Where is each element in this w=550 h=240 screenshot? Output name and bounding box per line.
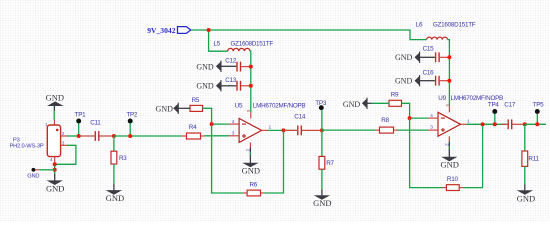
wire L5 to V+ rail [249,51,252,112]
wire 9V drop to L5 [209,30,228,51]
svg-text:TP1: TP1 [75,112,87,119]
ground below P3 [46,174,64,194]
op-amp U9 [428,95,503,146]
svg-text:GND: GND [46,184,64,194]
power port 9V_3042 [147,26,191,35]
svg-text:GND: GND [196,82,214,91]
svg-text:4: 4 [232,119,235,124]
wire GND stub [35,169,40,171]
test point TP4 [488,101,500,124]
svg-text:1: 1 [269,125,272,130]
wire R4 to U5 pin3 [205,135,229,137]
wire R8 to U9 pin3 [398,129,429,131]
svg-text:U5: U5 [235,103,243,110]
wire R9 left [367,102,372,104]
wire C17 to TP5 [525,123,546,125]
capacitor C16 [423,69,450,85]
wire P3 pin3 loop [55,145,76,164]
svg-text:L5: L5 [214,41,221,48]
node GND stub dot [32,168,36,172]
test point TP5 [533,101,545,124]
svg-text:R11: R11 [528,156,539,163]
junction C15 [447,55,451,59]
ground at R5 [156,103,179,114]
svg-text:TP2: TP2 [126,112,138,119]
svg-text:R3: R3 [119,155,127,162]
junction U9 output feedback [481,122,485,126]
svg-text:TP4: TP4 [488,101,500,108]
wire L6 to V+ rail U9 [448,40,450,107]
svg-text:GND: GND [313,198,331,208]
junction TP4 [493,122,497,126]
ground at C16 [395,75,435,86]
op-amp U5 [229,103,306,152]
resistor R7 [319,130,334,189]
wire feedback right U5 [264,130,283,193]
svg-text:C17: C17 [504,101,516,108]
ground at C12 [196,61,236,72]
junction U9 inverting node [408,116,412,120]
svg-text:TP5: TP5 [533,101,545,108]
test point TP3 [315,100,327,130]
svg-text:LMH6702MF/NOPB: LMH6702MF/NOPB [253,103,306,110]
test point TP1 [75,112,87,137]
svg-text:GND: GND [395,53,413,62]
resistor R10 [443,176,464,191]
svg-text:R10: R10 [447,176,459,183]
pin 2 right [61,135,67,137]
svg-text:GZ1608D151TF: GZ1608D151TF [433,21,476,28]
resistor R5 [190,97,203,111]
svg-text:1: 1 [467,119,470,124]
ground at C13 [196,80,236,91]
svg-text:GND: GND [196,62,214,71]
svg-text:GND: GND [343,100,361,109]
svg-text:GND: GND [242,166,260,176]
wire feedback right U9 [463,124,483,187]
capacitor C15 [423,45,450,62]
wire feedback loop U9 [410,118,443,188]
capacitor C11 [82,120,114,141]
capacitor C13 [225,77,251,91]
svg-text:R5: R5 [192,97,200,104]
pin 1 top [53,119,55,125]
svg-text:9V_3042: 9V_3042 [147,26,175,35]
junction R3 node [112,134,116,138]
svg-text:C16: C16 [423,69,435,76]
test point TP2 [126,112,138,137]
svg-text:R6: R6 [250,182,258,189]
ground above P3 [46,92,64,119]
svg-text:R8: R8 [381,117,389,124]
wire R9 to U9 inverting input [402,103,429,118]
svg-text:PH2.0-WS-3P: PH2.0-WS-3P [10,144,44,150]
resistor R6 [243,182,264,196]
pin 4 bottom [54,157,56,162]
inductor L6 [416,21,476,39]
junction P3 pin4 a [53,162,57,166]
junction TP1 [77,134,81,138]
svg-text:GND: GND [156,104,174,113]
ground at R9 [343,98,367,110]
wire P3 pin4 down [54,162,56,174]
svg-text:GND: GND [27,173,39,179]
wire P3 pin2 to main net [67,135,82,137]
svg-text:R7: R7 [326,160,334,167]
wire R5 left [177,107,191,109]
ground at R11 [517,185,535,204]
svg-text:C14: C14 [294,114,306,121]
svg-text:C11: C11 [90,120,101,127]
svg-text:R9: R9 [391,91,399,98]
junction C16 [447,79,451,83]
junction inverting node [210,122,214,126]
capacitor C14 [285,114,322,136]
junction TP3 node [320,128,324,132]
pin 3 right [61,144,67,146]
junction 9V rail [207,28,211,32]
junction R11 node [523,122,527,126]
svg-text:R4: R4 [189,124,197,131]
wire 9V rail top [191,30,427,40]
junction TP5 [535,122,539,126]
connector P3 [10,119,68,162]
wire U9 output [466,123,506,125]
junction C13 [249,84,253,88]
svg-text:GND: GND [395,77,413,86]
svg-text:GZ1608D151TF: GZ1608D151TF [231,41,274,48]
svg-text:C12: C12 [225,58,237,65]
wire U5 output [268,129,296,131]
ground at C15 [395,52,435,63]
svg-text:U9: U9 [438,95,446,102]
svg-text:L6: L6 [416,21,423,28]
svg-text:C15: C15 [423,45,435,52]
inductor L5 [214,41,274,52]
wire stage2 input [322,129,376,131]
wire main net to TP2 [114,135,182,137]
resistor R9 [389,91,402,106]
svg-text:3: 3 [232,131,235,136]
resistor R3 [111,136,127,184]
resistor R11 [522,124,540,184]
ground at R7 [313,190,331,209]
svg-text:C13: C13 [225,77,237,84]
junction TP2 [128,134,132,138]
ground at U9 pin2 [440,142,458,170]
svg-text:GND: GND [517,194,535,204]
capacitor C17 [501,101,525,129]
svg-text:4: 4 [430,113,433,118]
ground at R3 [106,184,124,203]
resistor R4 [182,124,205,139]
ground at U5 pin2 [242,148,260,176]
junction C12 [249,65,253,69]
svg-text:GND: GND [440,160,458,170]
svg-text:GND: GND [46,92,64,102]
svg-text:GND: GND [106,193,124,203]
wire R5 to inverting input [203,108,229,124]
junction P3 pin4 b [53,168,57,172]
resistor R8 [376,117,398,133]
svg-text:3: 3 [430,125,433,130]
junction U5 output [282,128,286,132]
capacitor C12 [225,58,251,72]
wire feedback loop U5 [212,124,244,193]
